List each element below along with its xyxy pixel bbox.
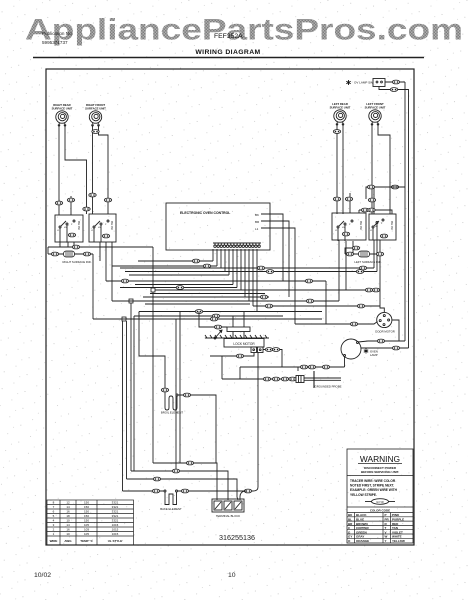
terminals inside right rear switch [59,220,75,242]
svg-text:316255136: 316255136 [219,533,255,542]
wire: door motor left lead [295,322,378,325]
wire gauge table text [50,501,123,543]
connector oval [236,354,243,358]
connector oval [305,279,312,283]
svg-text:INF SW: INF SW [390,220,394,230]
label: OV LAMP SW with asterisk [354,81,373,85]
label: right front surface unit [85,103,106,110]
connector oval [365,288,372,292]
watermark AppliancePartsPros.com [25,14,463,47]
svg-text:3321: 3321 [112,501,119,505]
wire: top feed line [48,247,153,254]
connector oval [308,365,315,369]
wire: lamp switch to right rail [385,82,405,341]
wire: door motor right lead [392,320,399,341]
bus wire y284.5 [135,284,233,286]
connector oval [333,197,340,201]
wire: lock contacts right lead [263,350,282,368]
broil element feed [139,312,165,389]
svg-text:18: 18 [66,514,70,518]
svg-text:14: 14 [66,523,70,527]
lock switch arm [214,330,222,339]
label: right rear surface unit [52,103,73,110]
bus wire y304 [145,303,250,305]
part number 316255136 [219,533,255,542]
wire: oven lamp right lead [361,347,409,349]
bus wire y258 [138,260,213,262]
warning box [347,449,413,543]
connector oval [55,201,62,205]
svg-text:EXAMPLE: GREEN WIRE WITH: EXAMPLE: GREEN WIRE WITH [350,488,398,492]
label: oven lamp with asterisk [370,350,378,358]
svg-text:150: 150 [84,501,89,505]
svg-text:AppliancePartsPros.com: AppliancePartsPros.com [25,14,463,47]
connector oval [272,348,279,352]
indicator lamp pill [64,251,75,257]
svg-text:LOCK MOTOR: LOCK MOTOR [233,342,255,346]
wire: latch risers to bus [233,312,244,328]
diagram border frame [46,69,414,545]
wire: J2 drop [130,303,132,471]
lock motor box [224,339,264,348]
wire: control BK lead [261,214,283,281]
svg-text:SURFACE UNIT: SURFACE UNIT [85,106,106,110]
svg-text:OV LAMP SW: OV LAMP SW [354,81,373,85]
svg-text:SURFACE UNIT: SURFACE UNIT [52,106,73,110]
svg-text:10: 10 [228,572,236,579]
connector oval [265,304,272,308]
junction square J2 [129,299,133,303]
wire: right rear coil right lead jog [65,125,87,214]
svg-text:3321: 3321 [112,510,119,514]
connector oval [272,377,279,381]
bus wire y301 [112,300,339,302]
svg-text:1015: 1015 [112,532,119,536]
terminals inside left front switch [372,219,384,240]
publication number text block [42,31,73,45]
bus wire y293.5 [150,293,265,295]
svg-text:SURFACE UNIT: SURFACE UNIT [365,105,386,109]
connector oval on lamp link [322,365,329,369]
svg-text:SURFACE UNIT: SURFACE UNIT [330,105,351,109]
connector oval [152,489,159,493]
connector oval [356,270,363,274]
color code header [370,509,390,513]
wire: left rear coil left lead [336,124,338,214]
surface unit coil: right rear [56,111,68,126]
connector oval left [346,252,353,256]
junction square J1 [151,288,155,292]
wire: lock switch drop to terminal block [253,352,258,491]
connector oval under right front coil [92,130,99,134]
indicator lamp pill [359,251,370,257]
wire: oven lamp top lead [358,341,405,342]
bus wire y287.5 [120,287,237,289]
wire: bus y316 left drop [133,316,135,471]
color code table text [348,513,405,543]
connector oval [265,348,272,352]
connector oval [350,322,357,326]
connector oval on feed [72,245,79,249]
lock switch contacts [251,347,263,353]
connector oval [289,377,296,381]
connector oval [203,264,210,268]
svg-text:LEFT SURFACE IND.: LEFT SURFACE IND. [354,260,381,264]
wire: bottom run y479 [127,479,239,500]
oven lamp switch box [373,79,385,87]
pin labels left rear switch [335,224,351,232]
svg-text:105: 105 [84,523,89,527]
switch label INF SW vertical [110,220,114,230]
svg-text:AWG: AWG [64,539,72,543]
connector oval [183,393,190,397]
svg-text:ORANGE: ORANGE [356,539,369,543]
label: electronic oven control [180,211,230,215]
connector oval [333,130,340,134]
label: left rear surface unit [330,102,351,109]
label: terminal block [216,514,240,518]
bus wire y290 [155,289,380,291]
indicator chain: right surface indicator light [48,253,93,255]
svg-text:150: 150 [84,510,89,514]
svg-text:TERMINAL BLOCK: TERMINAL BLOCK [216,514,240,518]
bus wire y297 [143,296,269,298]
connector oval on rail drop [367,185,374,189]
switch label INF SW vertical [77,220,81,230]
wire: oven lamp bottom lead [344,357,346,368]
infinite switch: right front [89,214,116,242]
connector oval [361,208,368,212]
connector oval [368,208,375,212]
wire: right front coil right lead branch [99,125,109,214]
wire: right rear coil left lead down to switch [58,125,60,215]
svg-text:RIGHT SURFACE IND.: RIGHT SURFACE IND. [62,260,91,264]
door motor [377,312,392,327]
wire: chain to bus319 [92,254,94,319]
bus wire y306 [253,305,380,307]
label: right surface ind. [62,260,91,264]
connector oval [89,193,96,197]
warning title [360,454,400,464]
wire: probe top link [240,366,345,368]
svg-text:LAMP: LAMP [370,353,378,357]
bus wire y275 [129,274,229,276]
model number text [214,33,243,40]
bus wire y268 [120,267,374,269]
label: left surface ind. [354,260,381,264]
label: bake element [160,507,182,511]
color code table [347,513,413,544]
warning subtitle [361,466,399,474]
svg-text:14: 14 [66,505,70,509]
svg-text:UL STYLE: UL STYLE [108,539,122,543]
svg-text:WIRING DIAGRAM: WIRING DIAGRAM [195,49,260,56]
svg-text:TEMP °C: TEMP °C [80,539,93,543]
wire: bake feed y491 [123,490,165,492]
svg-text:5995371737: 5995371737 [42,40,68,45]
wire: inter-switch link top [359,210,392,214]
svg-text:3321: 3321 [112,514,119,518]
svg-text:Publication No.: Publication No. [42,31,73,36]
junction square J3 [122,317,126,321]
wire: left front coil leads [372,124,390,214]
wires: infinite switch outputs down (left pair) [60,242,112,301]
connector oval [214,325,221,329]
svg-text:INF SW: INF SW [77,220,81,230]
svg-text:16: 16 [66,510,70,514]
bus wire y319 [93,318,322,320]
bus wire y316 [134,315,283,317]
svg-text:INF SW: INF SW [359,220,363,230]
surface unit coil: left rear [334,110,346,125]
surface unit coil: left front [369,110,381,125]
connector oval [210,317,217,321]
svg-text:YELLOW: YELLOW [392,539,405,543]
svg-text:3321: 3321 [112,505,119,509]
wire: right front coil left lead [92,125,94,214]
connector oval [121,279,128,283]
svg-text:TRACER WIRE: WIRE COLOR: TRACER WIRE: WIRE COLOR [350,479,396,483]
wire: probe left lead [222,378,296,380]
svg-text:10/02: 10/02 [34,572,51,579]
wire: lamp rail drop to switches [366,187,405,199]
svg-text:WIRE: WIRE [50,539,58,543]
connector oval on stub [352,246,359,250]
warning title underline [358,463,402,465]
svg-text:YELLOW STRIPE.: YELLOW STRIPE. [350,493,377,497]
bake element [164,490,178,505]
infinite switch: right rear [55,215,83,242]
connector oval [212,314,219,318]
connector oval on branch [104,198,111,202]
connector oval [186,461,193,465]
svg-text:GROUNDED PROBE: GROUNDED PROBE [315,385,342,389]
wire: bake element right lead [178,490,254,492]
connector oval [67,198,74,202]
connector oval on lamp lower lead [390,88,397,92]
warning paragraph [350,479,398,497]
connector oval [392,346,399,350]
svg-text:105: 105 [84,532,89,536]
wire gauge table [47,500,134,545]
wire: left rear coil right lead [342,124,344,214]
terminals inside right front switch [93,220,109,242]
pin labels right rear switch [57,224,73,232]
connector oval inside right front switch [102,234,109,238]
surface unit coil: right front [89,111,101,126]
switch label INF SW vertical [359,220,363,230]
svg-text:FEF352A: FEF352A [214,33,243,40]
label: lock motor [233,342,255,346]
svg-text:150: 150 [84,505,89,509]
bus wire y281 [106,280,326,282]
wire: control L1 lead [261,228,295,324]
bus wire y264 [112,265,217,267]
wire: bottom run y471 [131,471,228,500]
control board terminal strip [213,243,261,247]
oven temperature probe [296,371,341,388]
connector oval [359,266,366,270]
svg-text:WARNING: WARNING [360,454,400,464]
connector oval left front lead [368,198,375,202]
connector oval [181,489,188,493]
control right pin BK [255,213,259,217]
connector oval [153,477,160,481]
wire: drop to bottom run y471 [175,319,177,471]
svg-text:1015: 1015 [112,528,119,532]
connector oval on lamp switch wire [392,80,399,84]
terminals inside left rear switch [337,220,353,241]
connector oval right [83,252,90,256]
connector oval on link [83,207,90,211]
connector oval inside left front switch [380,234,387,238]
svg-text:BEFORE SERVICING UNIT.: BEFORE SERVICING UNIT. [361,470,399,474]
svg-text:1015: 1015 [112,523,119,527]
wire: broil right lead [178,395,216,463]
asterisk: oven lamp note [364,349,368,354]
control right pin L1 [255,227,259,231]
connector oval inside right rear switch [68,233,75,237]
wire: stub into right rear switch [70,196,72,215]
label: door motor [375,330,395,334]
control right pin BR [255,220,260,224]
label: left front surface unit [365,102,386,109]
svg-text:G/Y-W: G/Y-W [376,500,384,504]
connector oval [357,304,364,308]
wire: control BR lead [261,221,289,297]
footer date 10/02 [34,572,51,579]
door latch bracket [227,327,250,338]
connector oval right [376,252,383,256]
indicator chain: left surface indicator light [345,253,384,255]
pin labels left front switch [370,223,383,232]
switch label INF SW vertical [390,220,394,230]
wire: feed drop to junction [152,247,154,290]
svg-text:L1: L1 [255,227,259,231]
pin labels right front switch [91,224,107,232]
svg-text:ELECTRONIC OVEN CONTROL: ELECTRONIC OVEN CONTROL [180,211,230,215]
svg-text:DOOR MOTOR: DOOR MOTOR [375,330,395,334]
connector oval [192,259,199,263]
svg-text:COLOR CODE: COLOR CODE [370,509,390,513]
connector oval [161,388,168,392]
bus wire y271.5 [125,271,377,273]
connector oval left front branch [391,185,398,189]
svg-text:Y: Y [385,539,387,543]
svg-text:10: 10 [66,532,70,536]
connector oval [172,469,179,473]
infinite switch: left front [369,214,396,240]
title underline [33,57,424,59]
svg-text:INF SW: INF SW [110,220,114,230]
svg-text:16: 16 [66,528,70,532]
wires: control harness pins down [213,249,257,312]
wire: J3 loop pair down [123,321,127,491]
connector oval [345,197,352,201]
connector oval [244,489,251,493]
title WIRING DIAGRAM [195,49,260,56]
oven lamp [341,339,361,359]
connector oval [257,266,264,270]
svg-text:BROIL ELEMENT: BROIL ELEMENT [161,411,184,415]
connector oval [263,377,270,381]
connector oval inside left rear switch [342,232,349,236]
door lock hatch base [205,335,269,338]
svg-text:NOTED FIRST, STRIPE NEXT.: NOTED FIRST, STRIPE NEXT. [350,484,394,488]
wire: bottom run y463 to terminal block [153,463,217,500]
wire: lock area left stub [210,353,254,357]
connector oval [300,365,307,369]
wire: probe cylinder stub [297,367,299,371]
connector oval [372,288,379,292]
broil element [165,392,178,410]
wires: infinite switch outputs down (right pair) [339,240,384,312]
connector oval [266,270,273,274]
connector oval [176,286,183,290]
asterisk: oven lamp switch note [346,80,350,85]
wire: J1 drop to bottom run [152,292,154,463]
svg-text:BAKE ELEMENT: BAKE ELEMENT [160,507,182,511]
label: grounded probe [315,385,342,389]
svg-text:105: 105 [84,528,89,532]
connector oval [281,377,288,381]
svg-text:10: 10 [66,519,70,523]
connector oval [377,339,384,343]
wire: bus281 drop to door motor lead [325,281,327,324]
wire: probe link left drop [239,367,241,379]
svg-text:BK: BK [255,213,259,217]
connector oval [306,299,313,303]
terminal block [212,499,244,512]
bus wire y311.5 [139,311,322,313]
infinite switch: left rear [332,213,366,240]
wire: drop to bottom run y463 [179,312,181,464]
svg-text:12: 12 [66,501,70,505]
connector oval [260,295,267,299]
wire: inter-switch link left [349,193,351,213]
electronic oven control box [166,203,270,250]
svg-text:150: 150 [84,514,89,518]
tracer wire example oval [365,499,395,505]
wire: block right cell curve [240,491,246,500]
footer page number 10 [228,572,236,579]
wire: lock switch feed [199,312,227,328]
connector oval left [51,252,58,256]
label: broil element [161,411,184,415]
wire: probe lead left turn up [221,356,223,379]
svg-text:3321: 3321 [112,519,119,523]
connector oval [195,310,202,314]
wire: chain stub up [345,248,356,254]
wire: lamp switch lower lead [379,87,409,349]
svg-text:150: 150 [84,519,89,523]
